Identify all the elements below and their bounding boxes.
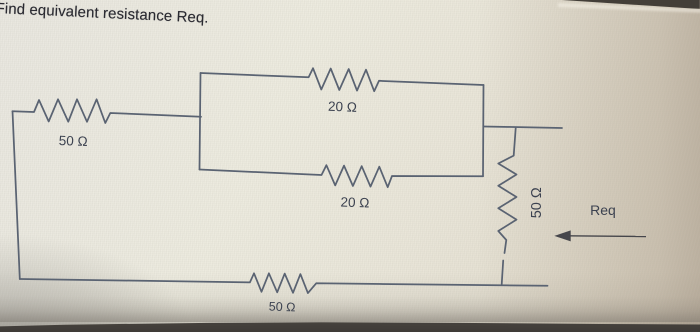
svg-text:20 Ω: 20 Ω	[340, 195, 369, 211]
svg-text:50 Ω: 50 Ω	[58, 133, 87, 149]
svg-text:50 Ω: 50 Ω	[269, 300, 296, 315]
svg-text:Req: Req	[590, 202, 616, 218]
svg-text:50 Ω: 50 Ω	[529, 187, 545, 218]
svg-text:20 Ω: 20 Ω	[328, 99, 357, 115]
